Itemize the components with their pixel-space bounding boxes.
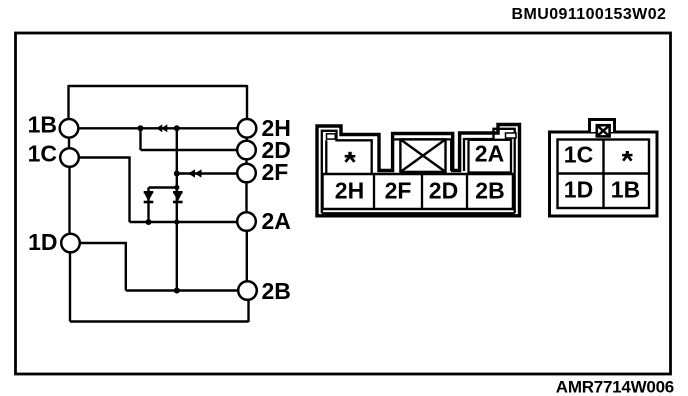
junction main vertical at 2A row	[174, 219, 179, 224]
svg-text:AMR7714W006: AMR7714W006	[556, 378, 674, 396]
svg-text:BMU091100153W02: BMU091100153W02	[512, 6, 667, 23]
svg-text:1D: 1D	[564, 177, 593, 203]
connector X-02 cavity divider horizontal	[558, 172, 650, 174]
connector X-02 cavity grid	[558, 140, 650, 209]
junction on main vertical at 2F row	[174, 171, 180, 177]
wire 1D down to bottom bus	[69, 252, 71, 322]
asterisk mark in X-02 top right cavity	[622, 151, 632, 161]
wire sub branch to left diode	[149, 186, 177, 188]
svg-text:1B: 1B	[28, 112, 57, 138]
wire vertical drop to terminal 1B	[67, 85, 69, 119]
wire to terminal 2F	[177, 172, 237, 174]
wire to terminal 2B	[126, 289, 238, 291]
wire link 1C to 1D	[68, 167, 70, 235]
connector X-01 cavity divider 2H/2F	[373, 174, 375, 209]
connector X-01 cavity 2A	[469, 140, 512, 173]
connector X-01 bottom cavity row	[323, 174, 514, 209]
junction main vertical at 2B row	[174, 288, 180, 294]
svg-text:1B: 1B	[611, 177, 640, 203]
connector X-02 lock tab	[590, 120, 615, 133]
wire from 1D right then down	[81, 243, 126, 291]
connector X-01 outer housing outline	[317, 125, 520, 216]
svg-text:2D: 2D	[429, 178, 458, 204]
junction on 1B row at 2D branch	[138, 125, 144, 131]
wire link 2F to 2A	[245, 181, 247, 213]
terminal pin 2F	[237, 164, 256, 183]
terminal pin 2H	[238, 119, 257, 138]
connector X-01 inner housing outline left part	[322, 131, 372, 214]
wire left diode vertical	[147, 188, 149, 223]
diode D1 left	[144, 192, 154, 202]
diode arrow marker on 1B-2H wire	[156, 124, 167, 132]
connector X-01 cavity (asterisk) left border	[325, 140, 327, 173]
wire link 2A to 2B	[246, 230, 248, 283]
connector X-02 cavity divider vertical	[602, 140, 604, 209]
wire 1B to 2H row	[78, 127, 238, 129]
connector X-02 outer housing outline	[550, 132, 658, 216]
junction on main vertical at sub branch	[174, 185, 179, 190]
svg-text:2A: 2A	[475, 141, 504, 167]
wire bottom bus up to terminal 2B	[247, 300, 249, 323]
svg-text:2B: 2B	[262, 278, 291, 304]
wire main vertical from 1B row down to 2B row	[176, 128, 178, 290]
connector X-01 inner housing outline bottom part	[322, 212, 515, 214]
connector X-01 blocked cavity (crossed)	[400, 139, 445, 172]
wire link 2D to 2F	[245, 158, 247, 166]
terminal pin 2B	[238, 281, 257, 300]
svg-text:2A: 2A	[262, 208, 291, 234]
wire bottom bus	[70, 320, 249, 322]
junction on 1B row at main vertical	[174, 125, 180, 131]
connector X-01 key slot left	[327, 134, 336, 139]
wire to terminal 2A	[130, 221, 238, 223]
asterisk mark in X-01 top left cavity	[345, 152, 356, 162]
svg-text:1C: 1C	[564, 142, 593, 168]
connector X-01 inner housing outline middle part	[394, 139, 452, 171]
wire link 2H to 2D	[246, 136, 248, 143]
svg-text:2F: 2F	[385, 178, 412, 204]
wire branch down from 1B row to 2D row	[139, 128, 141, 150]
svg-text:1C: 1C	[28, 141, 57, 167]
diode D2 right	[173, 192, 183, 202]
junction left diode at 2A row	[146, 219, 152, 225]
connector X-02 lock tab crossed square	[597, 125, 610, 136]
svg-text:1D: 1D	[28, 229, 57, 255]
diode arrow marker on 2F wire	[188, 169, 202, 177]
connector X-01 cavity divider 2D/2B	[466, 174, 468, 209]
svg-text:2F: 2F	[262, 159, 289, 185]
connector X-01 inner housing outline right part	[464, 129, 515, 214]
wire link 1B to 1C	[68, 138, 70, 149]
terminal pin 1D	[61, 234, 80, 253]
wire top bus from above 1B to above 2H	[69, 85, 248, 87]
wire from 1C right then down	[79, 158, 130, 223]
wire to terminal 2D	[141, 149, 238, 151]
svg-text:2H: 2H	[335, 178, 364, 204]
wire vertical drop to terminal 2H	[246, 85, 248, 119]
connector X-01 cavity divider 2F/2D	[421, 174, 423, 209]
svg-text:2B: 2B	[475, 178, 504, 204]
terminal pin 1B	[60, 119, 79, 138]
terminal pin 2A	[237, 212, 256, 231]
terminal pin 2D	[237, 141, 256, 160]
connector X-01 key slot right	[506, 133, 517, 138]
terminal pin 1C	[60, 148, 79, 167]
